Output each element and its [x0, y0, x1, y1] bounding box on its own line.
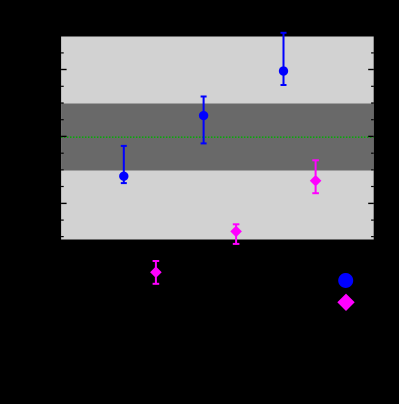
magenta point 1 marker [150, 266, 162, 278]
green dotted center line [61, 136, 374, 138]
legend blue circle marker [338, 273, 353, 288]
y-axis minor ticks right [371, 53, 374, 237]
blue point 2 error bar [201, 97, 207, 144]
plot area (light gray 2-sigma band) [61, 37, 374, 240]
blue point 3 error bar [281, 33, 287, 85]
dark gray 1-sigma band [61, 104, 374, 171]
magenta point 2 marker [230, 226, 242, 238]
magenta point 2 error bar [233, 224, 240, 244]
y-axis minor ticks left [61, 53, 64, 237]
blue point 3 marker [279, 66, 288, 75]
magenta point 3 error bar [312, 160, 319, 193]
y-axis major ticks left [61, 70, 67, 204]
y-axis major ticks right [368, 70, 374, 204]
legend magenta diamond marker [337, 294, 354, 311]
magenta point 1 error bar [153, 261, 160, 284]
blue point 1 error bar [121, 146, 127, 183]
magenta point 3 marker [310, 175, 322, 187]
blue point 1 marker [119, 172, 128, 181]
blue point 2 marker [199, 111, 208, 120]
